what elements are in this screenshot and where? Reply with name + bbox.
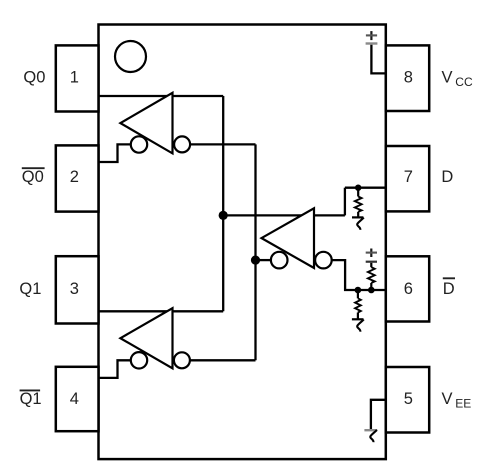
svg-text:5: 5 [404,390,413,408]
svg-text:Q0: Q0 [23,69,45,87]
capacitor C2 plus sign [366,249,377,258]
pin 1 box [56,45,99,111]
wire pin4 step [99,360,131,378]
pin 3 box [56,256,99,323]
svg-text:EE: EE [455,397,471,411]
svg-text:Q1: Q1 [19,280,41,298]
svg-text:D: D [443,280,455,298]
wire bus to U2 input [223,214,345,216]
pin 4 box [56,367,99,431]
wire U3 bubble to center bus [190,359,256,361]
pin-1 indicator circle [115,41,146,72]
buffer U1 (top) [120,93,172,154]
wire pin 5 (VEE) [371,400,386,430]
pin 7 box [386,146,429,211]
R2 break symbol [352,319,364,331]
wire Q1 net: pin3 to vertical bus [99,310,224,312]
junction node pin6 net / R2 [355,287,362,294]
wire pin2 step [99,144,131,162]
wire U2 input riser [344,188,346,216]
resistor R1 (D pulldown) [355,188,362,218]
U1 bubble right [174,136,190,152]
U1 bubble left [131,136,147,152]
C3 curved plate / break [370,430,377,442]
U2 bubble B [315,252,332,269]
U3 bubble right [174,352,190,368]
pin 5 box [386,367,429,433]
U2 bubble A [271,252,288,269]
capacitor C1 plus sign (VCC) [366,31,377,40]
wire vertical bus x=223 [222,96,224,311]
resistor R3 (series with C2) [368,263,375,290]
buffer U3 (bottom) [120,308,172,368]
wire Q0 net: pin1 to vertical bus [99,95,224,97]
wire center vertical bus x=255.5 [254,144,256,360]
U3 bubble left [131,352,147,368]
capacitor C3 plate (VEE) [364,429,377,431]
junction node bus/U2-input [219,211,228,220]
svg-text:8: 8 [404,69,413,87]
pin 2 box [56,145,99,211]
svg-text:CC: CC [455,75,473,89]
capacitor C1 plate [366,42,378,44]
svg-text:Q0: Q0 [22,168,44,186]
svg-text:7: 7 [404,168,413,186]
svg-text:V: V [442,390,453,408]
svg-text:6: 6 [404,280,413,298]
svg-text:3: 3 [70,280,79,298]
wire C1 to pin 8 [371,45,385,74]
wire U2 bubble B to pin 6 [332,260,386,290]
svg-text:2: 2 [70,168,79,186]
junction node D net / R1 [355,185,361,191]
svg-text:4: 4 [70,390,79,408]
buffer U2 (middle) [262,208,315,268]
capacitor C2 plate [366,261,377,263]
wire center bus to U2 bubble A [256,259,272,261]
svg-text:1: 1 [70,69,79,87]
wire U1 bubble to center bus [190,143,255,145]
svg-text:V: V [442,69,453,87]
pin 8 box [386,45,429,111]
junction node center bus/U2 bubble A [251,256,260,265]
resistor R2 (pin6 pulldown) [355,290,361,319]
IC package body outline [99,25,386,460]
R1 break symbol [352,217,364,229]
wire D net to pin 7 [345,187,386,189]
junction node pin6 net / C2 [368,287,375,294]
pin 6 box [386,256,429,321]
svg-text:D: D [441,168,453,186]
svg-text:Q1: Q1 [20,390,42,408]
